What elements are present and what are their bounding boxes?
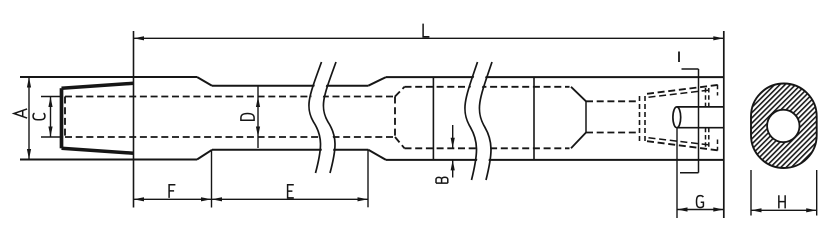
hidden upper line right section <box>405 86 570 88</box>
H right extension line <box>816 170 818 216</box>
collar top outline + A top extension line <box>20 76 197 78</box>
taper plug left face (thick) <box>60 88 64 148</box>
dimension B upper segment <box>452 125 454 148</box>
dimension B lower segment <box>452 160 454 178</box>
thread taper hidden top inner <box>649 90 709 97</box>
collar left face / L-F extension line <box>133 31 135 208</box>
neck chamfer bottom (solid) <box>571 133 586 149</box>
C extension line top (solid stub) <box>41 96 63 98</box>
hidden chamfer up right <box>395 87 405 97</box>
C extension line bottom (solid stub) <box>41 136 63 138</box>
thread taper hidden bottom outer <box>647 141 719 150</box>
right section top outline <box>386 76 724 78</box>
dimension A line <box>28 77 30 160</box>
nose cylinder bottom line <box>677 127 724 129</box>
label F <box>169 185 175 198</box>
right end face <box>723 31 725 218</box>
thread end hidden verticals top <box>705 88 707 107</box>
taper top edge (thick) <box>62 83 134 88</box>
break 2 white band <box>466 62 490 180</box>
label L <box>423 24 429 37</box>
E right extension line <box>367 151 369 208</box>
neck face vertical <box>585 101 587 132</box>
dimension H line <box>751 209 817 211</box>
dimension E line <box>212 198 369 200</box>
break 1 white band <box>310 62 334 173</box>
dimension G line <box>677 209 724 211</box>
hidden hole start cap <box>64 97 66 138</box>
hidden flushing hole bottom line <box>65 136 395 138</box>
break 1 wavy line left <box>309 62 322 173</box>
right section bottom outline <box>386 159 724 161</box>
taper bottom edge (thick) <box>62 148 134 153</box>
dimension D line <box>257 86 259 148</box>
dimension F line <box>134 198 212 200</box>
chamfer mid to right, bottom <box>368 150 386 160</box>
label C <box>33 113 45 120</box>
mid section top outline <box>212 85 368 87</box>
break 2 wavy line right <box>479 62 492 180</box>
label B <box>436 177 448 183</box>
label D <box>241 114 254 121</box>
upset transition line 1 <box>432 77 434 160</box>
break 1 wavy line right <box>323 62 336 173</box>
dimension C line <box>50 97 52 138</box>
F/E shared extension line <box>211 151 213 208</box>
chamfer collar to mid, top <box>197 77 212 86</box>
label A <box>14 109 27 118</box>
upset transition line 2 <box>533 77 535 160</box>
thread taper hidden bottom inner <box>649 138 709 145</box>
thread tip hidden verticals <box>717 85 719 96</box>
chamfer mid to right, top <box>368 77 386 86</box>
thread start hidden verticals <box>639 96 641 142</box>
hidden hole end cap <box>394 97 396 138</box>
label H <box>779 195 785 208</box>
label G <box>697 196 704 208</box>
label E <box>288 185 294 198</box>
hidden lower line right section <box>405 147 570 149</box>
dimension L line <box>134 37 724 39</box>
nose cylinder top line <box>677 106 724 108</box>
section view center hole <box>767 110 799 142</box>
neck bottom hidden line <box>586 132 639 134</box>
mid section bottom outline <box>212 149 368 151</box>
label I <box>678 52 680 63</box>
neck chamfer top (solid) <box>571 87 586 102</box>
neck top hidden line <box>586 100 639 102</box>
nose cylinder end ellipse <box>673 107 681 128</box>
hidden flushing hole top line <box>65 96 395 98</box>
thread end hidden verticals bottom <box>705 128 707 147</box>
H left extension line <box>750 170 752 216</box>
collar bottom outline + A bottom extension line <box>20 159 197 161</box>
hidden chamfer down right <box>395 137 405 148</box>
thread taper hidden top outer <box>647 85 719 94</box>
G left extension line <box>676 128 678 218</box>
I bracket <box>682 68 699 70</box>
chamfer collar to mid, bottom <box>197 150 212 160</box>
break 2 wavy line left <box>465 62 478 180</box>
section view hatched body <box>751 84 817 169</box>
